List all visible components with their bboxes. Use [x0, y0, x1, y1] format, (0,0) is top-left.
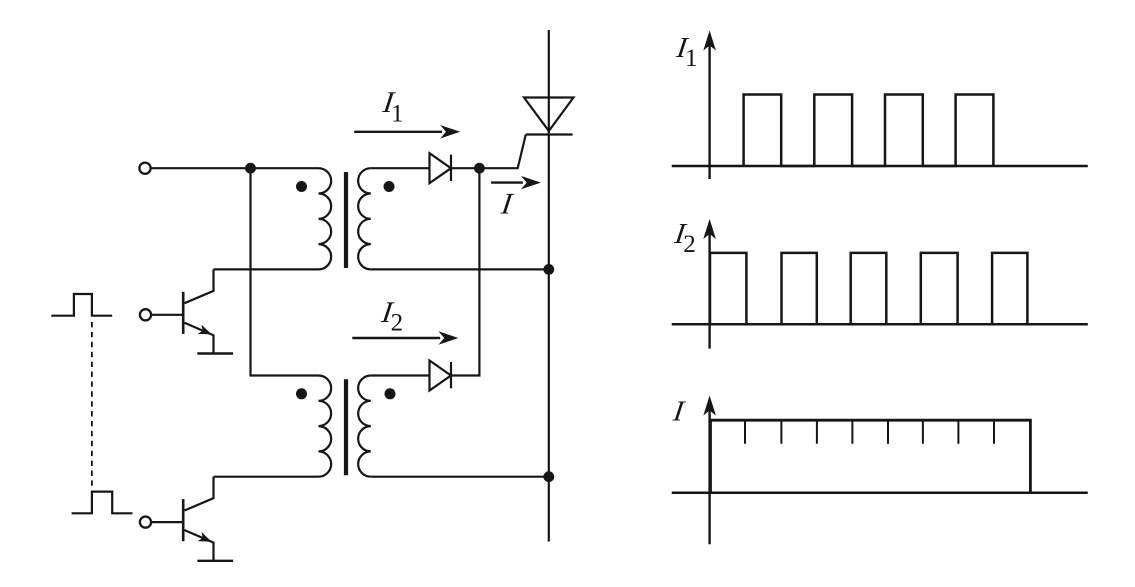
arrow I2: [352, 337, 440, 339]
transistor Q1 collector: [185, 269, 214, 303]
wire node A down to T2 primary top: [251, 168, 319, 375]
T1 secondary polarity dot: [384, 181, 395, 192]
plot I2 x-axis: [672, 323, 1088, 326]
wire T1 secondary top to D1 anode: [371, 167, 430, 169]
wire node A to T1 primary top: [251, 167, 319, 169]
wire T2 primary bottom to Q2 collector: [214, 476, 319, 478]
transistor Q2 collector: [185, 477, 214, 511]
transistor Q2 emitter: [185, 530, 214, 561]
main cathode rail: [548, 30, 550, 542]
dashed timing line: [91, 322, 93, 487]
svg-text:2: 2: [391, 310, 404, 337]
gate wire node B to thyristor gate: [479, 135, 525, 169]
diode D1: [430, 153, 452, 183]
thyristor VS triangle: [524, 98, 574, 132]
transformer T2 secondary winding: [358, 376, 371, 477]
plot I2 waveform: [710, 253, 1027, 324]
input terminal 3: [140, 517, 151, 528]
svg-text:1: 1: [391, 100, 404, 127]
svg-text:2: 2: [683, 231, 696, 258]
plot I y-axis arrowhead: [703, 396, 716, 416]
input pulse waveform 2: [72, 492, 133, 514]
svg-text:1: 1: [685, 45, 698, 72]
transistor Q1 emitter: [185, 323, 214, 354]
diode D2: [430, 361, 452, 391]
node C junction dot: [543, 264, 554, 275]
T2 primary polarity dot: [296, 388, 307, 399]
plot I1 y-axis arrowhead: [703, 31, 716, 51]
plot I waveform: [711, 420, 1031, 493]
plot I1 waveform: [744, 95, 994, 167]
input terminal 1: [139, 163, 150, 174]
thyristor cathode bar: [526, 133, 573, 135]
node B junction dot: [474, 163, 485, 174]
node D junction dot: [543, 471, 554, 482]
transistor Q2 base bar: [182, 499, 185, 541]
svg-text:I: I: [670, 396, 687, 428]
wire input 2 to Q1 base: [151, 314, 183, 316]
transformer T1 secondary winding: [358, 168, 371, 269]
wire T1 secondary bottom to node C: [371, 268, 549, 270]
transformer T1 core: [344, 172, 348, 268]
transformer T2 primary winding: [319, 376, 332, 477]
plot I x-axis: [672, 491, 1088, 494]
wire T2 secondary bottom to node D: [371, 476, 549, 478]
wire T1 primary bottom to Q1 collector: [214, 268, 319, 270]
Q1 emitter ground bar: [197, 352, 233, 354]
input terminal 2: [140, 309, 151, 320]
transformer T2 core: [344, 379, 348, 475]
node A junction dot: [245, 163, 256, 174]
arrow I1: [354, 131, 442, 133]
plot I commutation ticks: [745, 421, 994, 444]
wire node B down to D2 cathode: [451, 168, 479, 375]
T2 secondary polarity dot: [385, 388, 396, 399]
Q1 emitter arrowhead: [198, 325, 214, 339]
T1 primary polarity dot: [296, 181, 307, 192]
plot I1 y-axis: [708, 44, 710, 179]
wire input 1 to node A: [151, 167, 251, 169]
transformer T1 primary winding: [319, 168, 332, 269]
Q2 emitter ground bar: [197, 560, 233, 562]
plot I2 y-axis: [708, 233, 710, 349]
transistor Q1 base bar: [182, 292, 185, 334]
input pulse waveform 1: [51, 294, 112, 316]
Q2 emitter arrowhead: [198, 532, 214, 546]
plot I2 y-axis arrowhead: [703, 219, 716, 239]
wire T2 secondary top to D2 anode: [371, 374, 430, 376]
arrow I: [491, 181, 523, 183]
plot I y-axis: [708, 409, 710, 544]
svg-text:I: I: [498, 187, 516, 221]
plot I1 x-axis: [672, 165, 1088, 168]
wire D1 cathode to node B: [451, 167, 479, 169]
wire input 3 to Q2 base: [151, 521, 183, 523]
